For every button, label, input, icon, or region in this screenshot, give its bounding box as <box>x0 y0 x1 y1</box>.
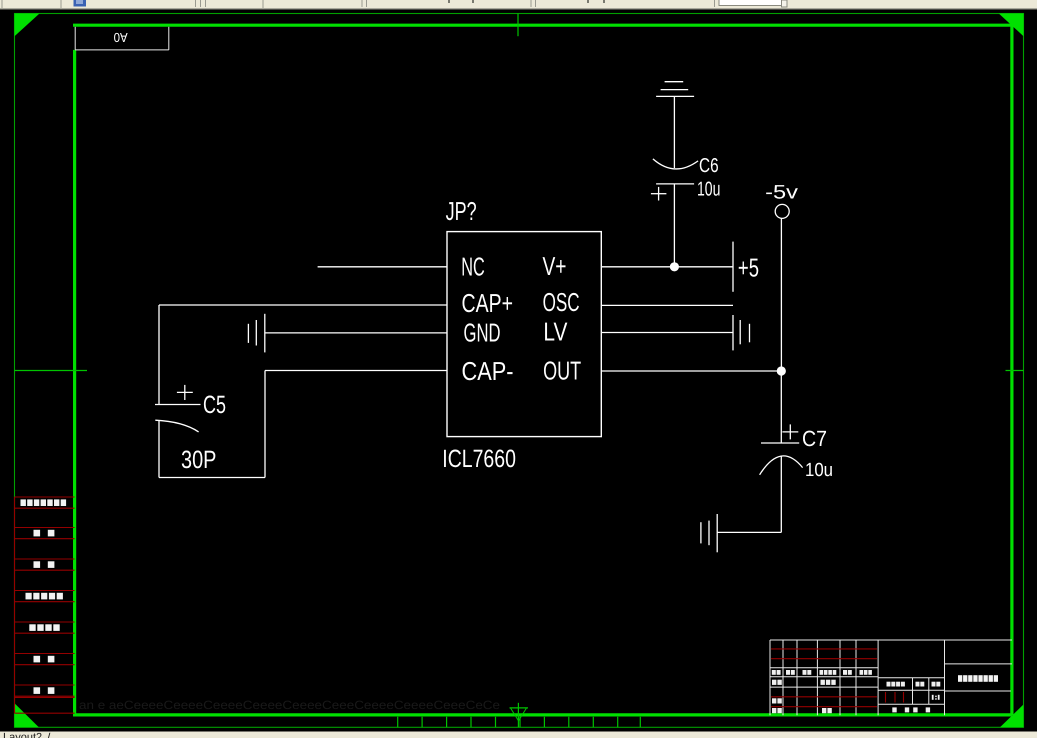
refdes C7 <box>802 426 827 451</box>
svg-text:10u: 10u <box>805 460 833 481</box>
svg-text:30P: 30P <box>181 446 216 474</box>
toolbar strip <box>0 0 1037 9</box>
wire LV pin <box>601 332 732 334</box>
svg-text:-5v: -5v <box>765 182 798 204</box>
IC U1 ICL7660 body <box>447 232 601 437</box>
wire NC pin <box>318 266 447 268</box>
refdes JP? <box>446 196 477 226</box>
value label ICL7660 <box>442 445 516 473</box>
left column label glyph blobs <box>21 499 67 693</box>
svg-text:an e aeCeeeeCeeeeCeeeeCeeeeCee: an e aeCeeeeCeeeeCeeeeCeeeeCeeeeCeeeCeee… <box>79 698 500 712</box>
pin label LV <box>543 316 568 346</box>
corner triangle top-left <box>15 14 40 37</box>
pin label CAP- <box>462 356 514 386</box>
svg-text:OUT: OUT <box>543 355 581 385</box>
svg-text:C7: C7 <box>802 426 827 451</box>
title block tiny label blobs <box>772 670 941 713</box>
value 30P <box>181 446 216 474</box>
pin label V+ <box>543 251 567 281</box>
toolbar sunken box <box>719 0 782 6</box>
svg-text:OSC: OSC <box>543 287 580 317</box>
ground above C6 (pointing up) <box>656 82 694 97</box>
scale 1:1 text <box>932 695 940 700</box>
drawing title blobs <box>958 675 998 682</box>
svg-text:GND: GND <box>464 318 501 348</box>
wire C5 bottom loop <box>159 371 265 478</box>
centering mark top <box>517 14 519 37</box>
svg-text:NC: NC <box>461 252 485 282</box>
refdes C6 <box>699 155 719 177</box>
svg-text:CAP+: CAP+ <box>462 288 514 318</box>
pin label GND <box>464 318 501 348</box>
wire OUT pin <box>601 370 781 372</box>
+5 terminal tick <box>732 242 734 292</box>
svg-text:10u: 10u <box>697 179 720 201</box>
net label -5v <box>765 182 798 204</box>
pin label OUT <box>543 355 581 385</box>
centering mark bottom <box>517 703 519 728</box>
ground at LV pin (pointing right) <box>733 315 750 350</box>
svg-text:CAP-: CAP- <box>462 356 514 386</box>
corner triangle bottom-right <box>1000 705 1023 728</box>
-5v terminal circle <box>775 204 789 218</box>
status strip <box>0 732 1037 738</box>
bottom scale bar ticks <box>398 717 641 728</box>
wire OSC pin <box>601 304 733 306</box>
value 10u <box>697 179 720 201</box>
pin label CAP+ <box>462 288 514 318</box>
svg-text:Layout2: Layout2 <box>3 732 42 738</box>
wire V+ pin <box>601 266 733 268</box>
pin label OSC <box>543 287 580 317</box>
svg-text:ICL7660: ICL7660 <box>442 445 516 473</box>
title block <box>770 640 1012 715</box>
svg-text:JP?: JP? <box>446 196 477 226</box>
net label +5 <box>738 252 759 282</box>
wire CAP- pin <box>265 370 447 372</box>
svg-text:A0: A0 <box>114 30 128 45</box>
wire -5v to OUT node <box>780 218 782 371</box>
A0 sheet-size box <box>75 27 169 50</box>
centering mark right <box>1006 370 1024 372</box>
ground at GND pin (pointing left) <box>248 314 264 353</box>
ground below C7 (pointing left) <box>701 514 717 552</box>
left margin label column (red boxes) <box>15 497 75 713</box>
capacitor C5 <box>155 305 201 432</box>
title block red signature lines <box>771 649 904 707</box>
toolbar blue icon <box>74 0 87 7</box>
svg-text:C6: C6 <box>699 155 719 177</box>
value 10u <box>805 460 833 481</box>
corner triangle bottom-left <box>15 703 39 727</box>
wire C7 to ground <box>717 531 781 533</box>
junction node at OUT <box>777 366 786 375</box>
inner border frame (thick green) <box>73 24 1012 27</box>
capacitor C7 <box>760 371 803 532</box>
wire GND pin <box>265 332 447 334</box>
centering mark left <box>15 370 88 372</box>
svg-text:C5: C5 <box>203 391 226 419</box>
svg-text:LV: LV <box>543 316 568 346</box>
junction node at V+ <box>670 262 679 271</box>
corner triangle top-right <box>999 14 1024 37</box>
A0 label (rotated 180) <box>114 30 128 45</box>
pin label NC <box>461 252 485 282</box>
svg-text:+5: +5 <box>738 252 759 282</box>
svg-text:V+: V+ <box>543 251 567 281</box>
refdes C5 <box>203 391 226 419</box>
capacitor C6 <box>651 96 698 266</box>
wire CAP+ pin <box>159 304 447 306</box>
